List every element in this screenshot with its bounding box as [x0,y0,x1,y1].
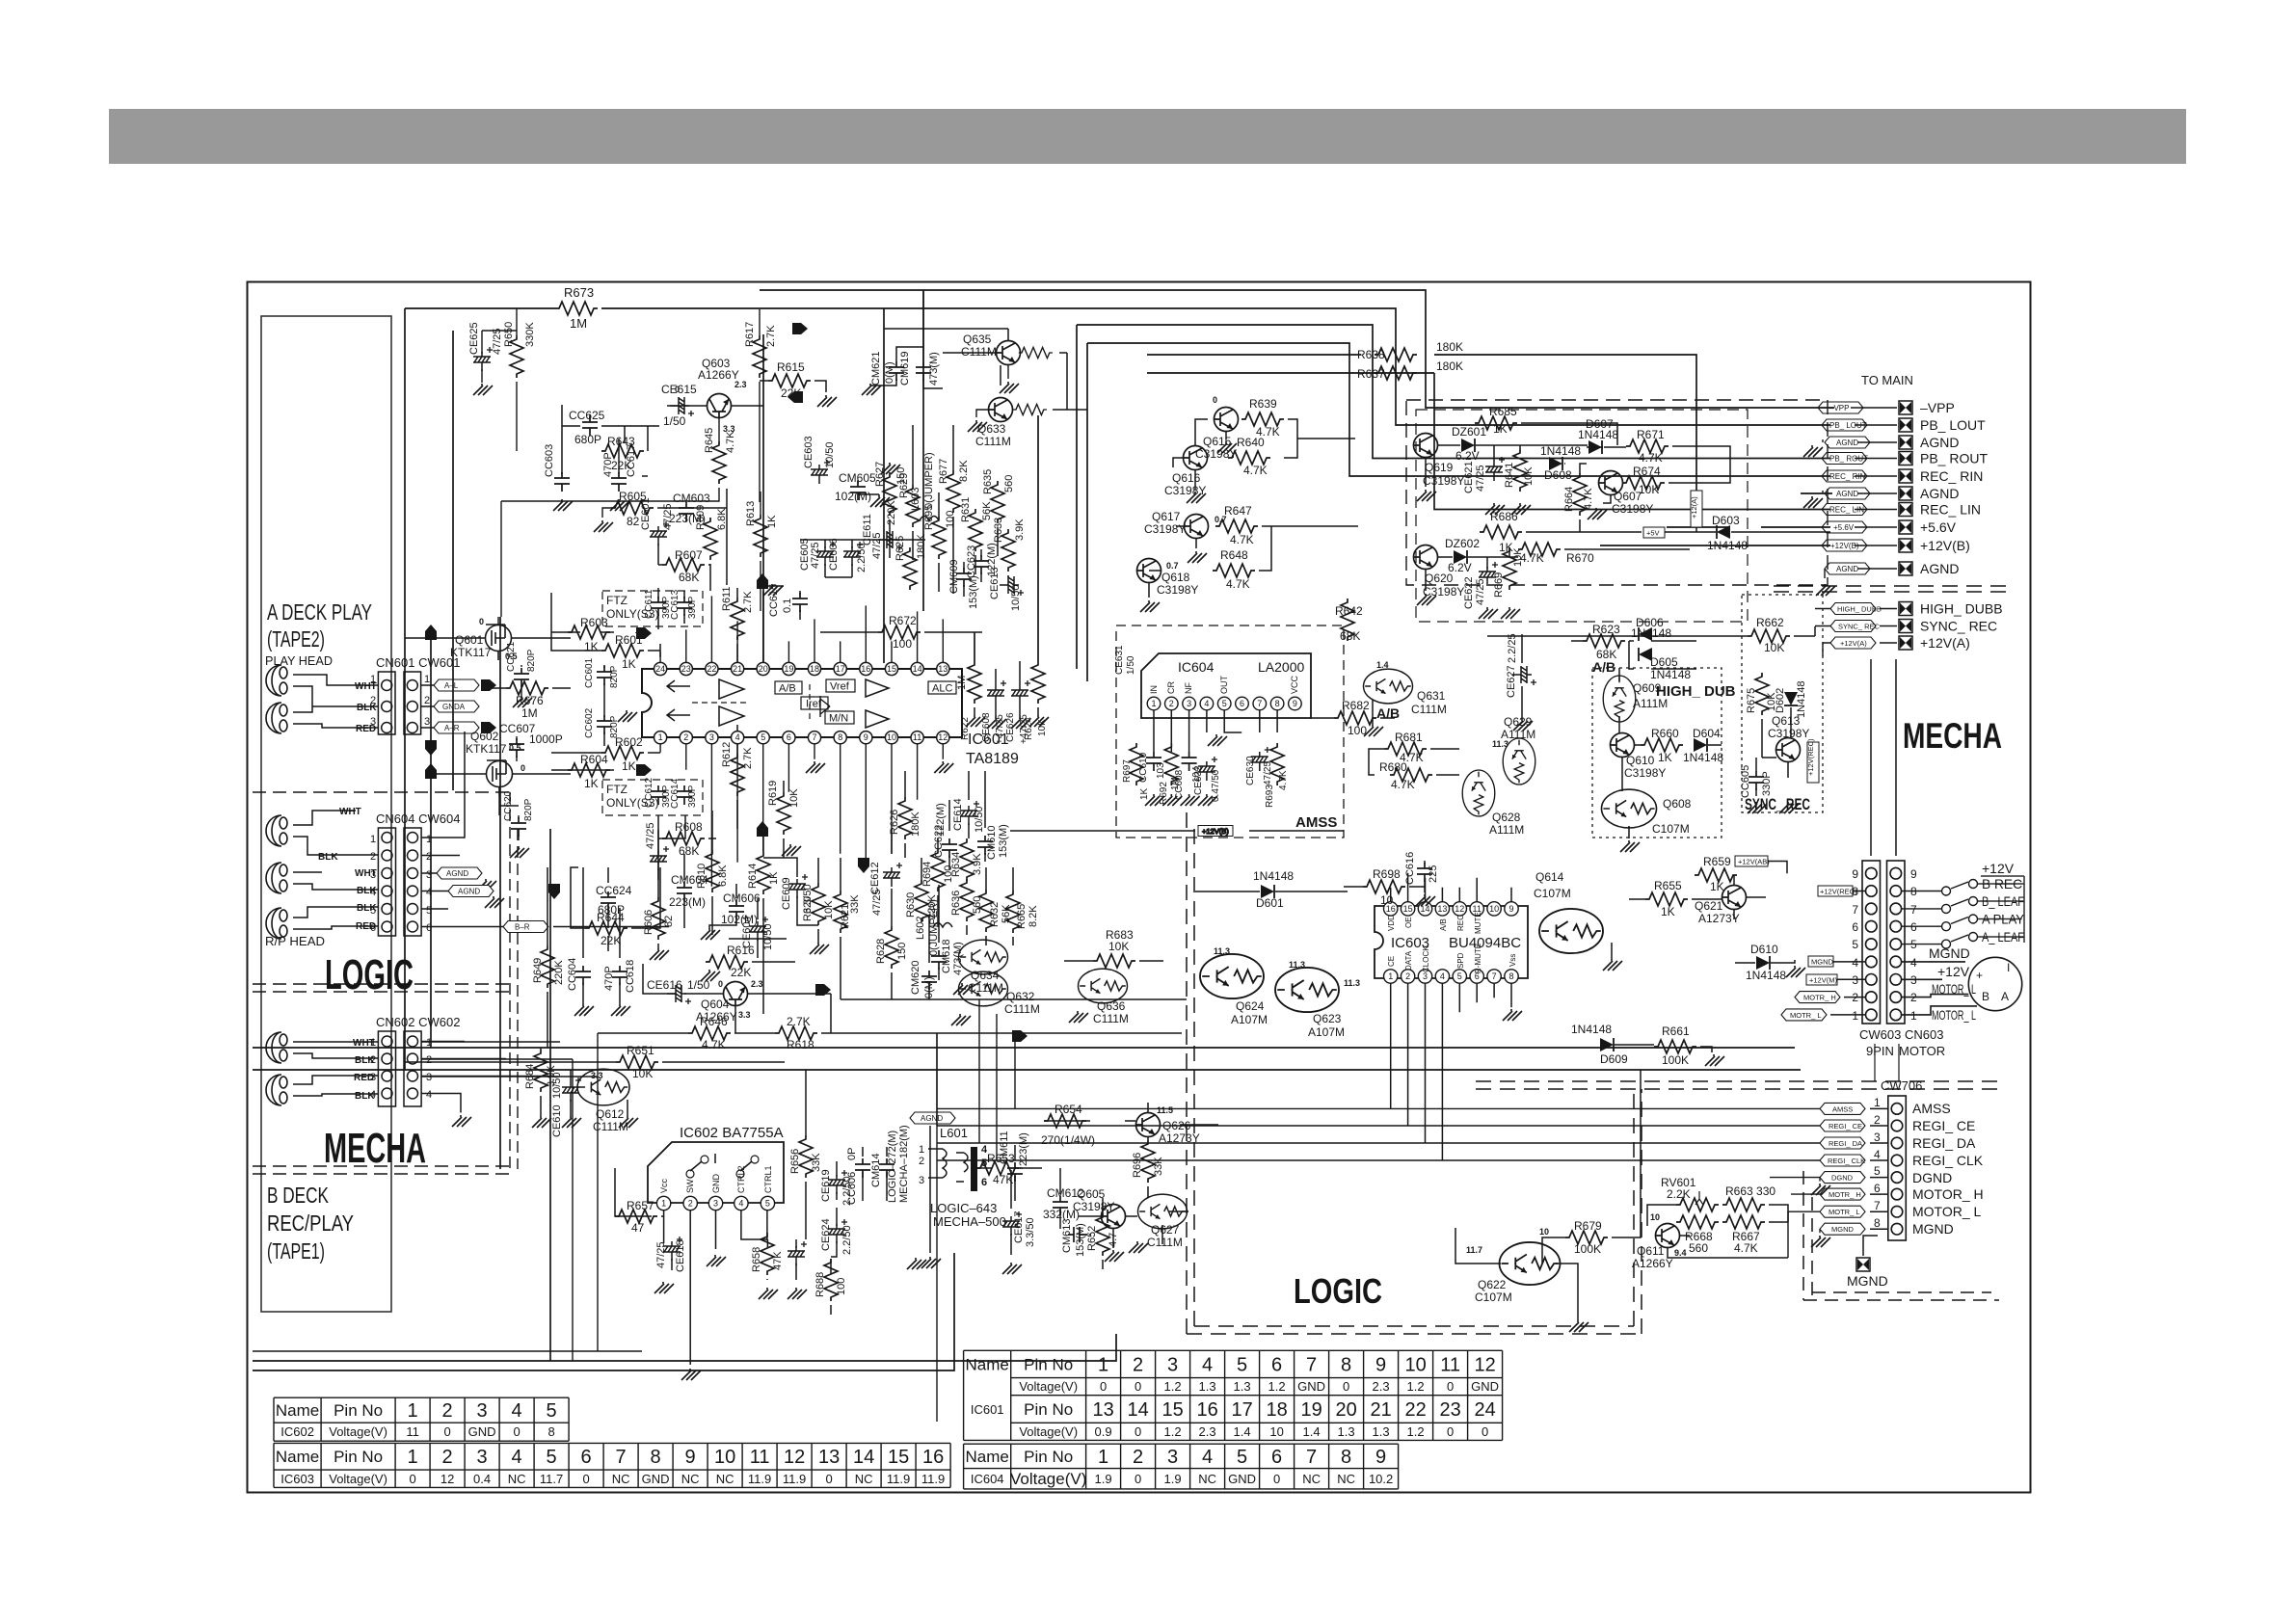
transistor Q628 A111M [1462,770,1495,816]
transistor Q610 C3198Y [1611,733,1635,758]
svg-text:FTZ: FTZ [606,783,627,796]
svg-text:TO MAIN: TO MAIN [1861,373,1913,387]
svg-text:R629: R629 [898,473,910,498]
svg-text:B DECK: B DECK [267,1183,329,1208]
svg-text:GND: GND [468,1424,496,1439]
svg-text:A1266Y: A1266Y [1632,1257,1673,1270]
svg-text:LOGIC–272(M): LOGIC–272(M) [887,1131,898,1203]
wire bottom bus 1 [253,1334,1116,1361]
svg-text:R632: R632 [989,902,1001,927]
dashed separator LOGIC bottom (double) [253,984,511,992]
svg-text:IC602 BA7755A: IC602 BA7755A [680,1125,784,1141]
svg-text:100: 100 [945,511,956,528]
svg-text:+5.6V: +5.6V [1920,519,1957,535]
resistor R664 4.7K [1573,473,1587,516]
transistor Q620 [1414,545,1438,570]
svg-text:AGND: AGND [1920,561,1959,576]
svg-text:4: 4 [1202,1447,1213,1468]
wires from tags leftwards [1823,408,1897,578]
svg-text:11.3: 11.3 [1492,739,1508,749]
ground Q616 [1187,492,1206,503]
svg-text:2: 2 [370,851,376,863]
svg-text:4: 4 [370,1089,376,1101]
svg-text:102(M): 102(M) [835,490,871,503]
svg-text:82: 82 [663,916,675,927]
svg-text:1: 1 [1151,699,1156,708]
svg-text:1K: 1K [584,640,599,653]
capacitor CC625 680P [582,416,598,436]
svg-text:R665: R665 [1016,904,1028,929]
svg-text:R682: R682 [1342,699,1370,712]
resistor R661 100K [1654,1040,1696,1053]
svg-text:10K: 10K [788,788,800,808]
boxed label Vref [826,679,855,692]
dashed: upper right zone under TO MAIN (double) [1774,586,2013,592]
svg-text:4.7K: 4.7K [1583,488,1594,510]
svg-text:R615: R615 [777,360,805,374]
svg-text:820P: 820P [523,798,534,821]
svg-text:DGND: DGND [1912,1170,1952,1185]
svg-text:IN: IN [1149,685,1159,694]
svg-text:5: 5 [1874,1164,1881,1178]
pad PB_ROUT [1899,452,1912,466]
svg-text:CE601: CE601 [640,497,652,530]
resistor R621 33K [834,891,847,933]
resistor R630 220K [915,880,928,922]
svg-text:1: 1 [408,1400,418,1422]
svg-text:Name: Name [966,1355,1009,1373]
svg-text:R648: R648 [1220,548,1248,562]
capacitor CC612 390P [651,785,666,805]
svg-text:MECHA: MECHA [324,1125,426,1172]
svg-text:BU4094BC: BU4094BC [1449,935,1521,951]
svg-text:0: 0 [1213,395,1217,405]
svg-text:2: 2 [426,1054,432,1066]
pin wires down [1154,710,1295,752]
svg-text:1/50: 1/50 [1126,655,1136,675]
svg-text:2.3: 2.3 [751,979,763,989]
IC603 body [1375,906,1528,978]
svg-text:3: 3 [1187,699,1191,708]
svg-text:3.3/50: 3.3/50 [1025,1217,1036,1247]
svg-text:R685: R685 [1489,405,1517,418]
svg-text:0.9: 0.9 [1095,1424,1112,1439]
svg-text:1/50: 1/50 [687,978,710,992]
svg-text:Q608: Q608 [1663,797,1692,811]
svg-text:C111M: C111M [1147,1236,1183,1249]
svg-text:C111M: C111M [1004,1002,1040,1016]
resistor R657 47 [615,1210,657,1223]
connector CW603 [1862,861,1881,1024]
svg-text:3: 3 [709,732,714,742]
wire +12V(B) tag feed [1010,830,1344,832]
svg-text:MGND: MGND [1929,945,1970,961]
+12V(A) row [1899,636,1912,650]
svg-text:4: 4 [512,1400,522,1422]
svg-text:9.4: 9.4 [1674,1248,1687,1258]
capacitor CM609 153(M) [956,568,972,587]
svg-text:1.2: 1.2 [1268,1379,1286,1394]
svg-text:4.7K: 4.7K [1639,451,1663,465]
capacitor CE630 47/25 [1251,747,1270,771]
capacitor CE601 47/25 [650,521,669,545]
svg-text:CC617: CC617 [626,444,637,477]
svg-text:100: 100 [836,1278,847,1295]
svg-text:4: 4 [1910,956,1917,970]
svg-text:R650: R650 [503,322,515,347]
svg-text:MOTR_ L: MOTR_ L [1829,1208,1860,1216]
svg-text:3.9K: 3.9K [972,853,983,875]
svg-text:6: 6 [1271,1354,1282,1375]
diode D606 1N4148 [1639,627,1652,641]
svg-text:Q634: Q634 [971,969,1000,982]
svg-text:R-MUTE: R-MUTE [1474,944,1482,973]
svg-text:1K: 1K [1710,880,1724,893]
svg-text:10/50: 10/50 [824,441,836,468]
svg-text:19: 19 [784,664,793,674]
svg-text:1: 1 [1388,971,1393,981]
resistor R628 150 [885,926,898,969]
svg-text:CM614: CM614 [870,1154,882,1187]
svg-text:4.7K: 4.7K [702,1038,726,1051]
svg-text:Name: Name [276,1448,319,1466]
svg-text:7: 7 [1257,699,1262,708]
pin circles bottom row 1..12 [654,732,949,744]
svg-text:122(M): 122(M) [935,803,947,837]
svg-text:R640: R640 [1237,436,1265,449]
svg-text:CC604: CC604 [567,958,578,991]
wedge pad mid [815,984,831,996]
svg-text:NC: NC [855,1472,873,1486]
svg-text:0.7: 0.7 [1166,561,1179,571]
svg-text:1: 1 [408,1447,418,1468]
svg-text:CN602 CW602: CN602 CW602 [376,1015,460,1029]
svg-text:11.7: 11.7 [1466,1245,1482,1255]
svg-text:R651: R651 [627,1044,654,1057]
svg-text:10/50: 10/50 [974,806,985,833]
svg-text:MECHA–182(M): MECHA–182(M) [898,1125,910,1203]
boxed label Iref [801,697,828,709]
wedge pad left near Q633 row [788,391,803,403]
svg-text:2: 2 [1405,971,1410,981]
svg-text:SYNC_ REC: SYNC_ REC [1838,623,1881,631]
wires q601 [405,617,571,840]
resistor R623 68K [1583,634,1625,648]
inductor L602 0(JUMPER) [933,923,952,928]
transistor Q627 C111M [1138,1194,1188,1229]
svg-text:100K: 100K [1662,1053,1689,1067]
svg-text:R631: R631 [960,497,972,522]
svg-text:223(M): 223(M) [669,895,706,909]
svg-text:2: 2 [370,695,376,706]
svg-text:270(1/4W): 270(1/4W) [1041,1133,1095,1147]
resistor R672 100 [878,625,921,639]
svg-text:4: 4 [1202,1354,1213,1375]
capacitor CE609 3.3/50 [788,874,808,898]
transistor Q601 KTK117 [486,625,512,660]
svg-text:CE619: CE619 [820,1169,832,1202]
wire verticals below IC603 [937,999,1015,1160]
svg-text:3: 3 [477,1447,488,1468]
net tag +12V(B) [1822,540,1867,551]
svg-text:AMSS: AMSS [1295,814,1337,831]
svg-text:R693: R693 [1265,785,1275,808]
svg-text:4.7K: 4.7K [1520,551,1544,565]
connector CN601 [378,672,395,734]
svg-text:R620: R620 [802,896,814,921]
svg-text:Q621: Q621 [1695,899,1723,913]
svg-text:10: 10 [1489,904,1499,914]
svg-text:Iref: Iref [806,699,822,710]
svg-text:AGND: AGND [921,1114,943,1123]
svg-text:KTK117: KTK117 [450,646,492,659]
svg-text:47/25: 47/25 [645,822,656,849]
capacitor CC604 [575,966,591,985]
svg-text:DGND: DGND [1831,1174,1854,1183]
svg-text:47/25: 47/25 [1475,465,1486,492]
svg-text:CE632: CE632 [1193,765,1204,795]
svg-text:CE618: CE618 [675,1239,686,1272]
boxed tag +12V(REC) vertical [1807,742,1819,783]
wires IC603 bottom staircase [1391,983,1511,1160]
svg-text:C3198Y: C3198Y [1157,583,1198,597]
wire CW602 rows to right [421,1042,598,1077]
capacitor CC605 330P [1749,771,1764,790]
svg-text:NC: NC [612,1472,630,1486]
net tag AGND [1825,437,1870,448]
svg-text:1M: 1M [570,316,587,331]
svg-text:GNDA: GNDA [442,703,466,711]
grounds under [1145,794,1164,806]
svg-text:Voltage(V): Voltage(V) [329,1424,387,1439]
svg-text:3: 3 [477,1400,488,1422]
svg-text:9: 9 [1375,1354,1386,1375]
svg-text:R603: R603 [580,616,608,629]
svg-text:PB_ LOUT: PB_ LOUT [1920,417,1986,433]
capacitor CE624 2.2/50 [828,1219,847,1243]
svg-text:3: 3 [426,1072,432,1083]
resistor R679 100K [1565,1231,1608,1244]
svg-text:17: 17 [836,664,845,674]
resistor R632 56K [979,890,993,932]
svg-text:Q632: Q632 [1006,990,1035,1003]
svg-text:4.7K: 4.7K [1278,770,1289,790]
transistor Q603 [707,394,732,418]
svg-text:47K: 47K [993,1173,1013,1186]
svg-text:16: 16 [922,1447,944,1468]
svg-text:9: 9 [1375,1447,1386,1468]
svg-text:1.2: 1.2 [1407,1424,1425,1439]
svg-text:68K: 68K [679,571,699,584]
transistor Q624 A107M [1200,954,1264,998]
svg-text:CC606: CC606 [846,1172,858,1205]
capacitor CC606 0P [855,1158,870,1178]
svg-text:1N4148: 1N4148 [1571,1023,1612,1036]
svg-text:(TAPE2): (TAPE2) [267,626,325,652]
connector CN602 [378,1031,395,1106]
resistor R626 180K [898,797,912,839]
svg-text:+12(A): +12(A) [1690,496,1698,519]
svg-text:1K: 1K [768,871,780,885]
svg-text:1.4: 1.4 [1376,660,1389,670]
svg-text:+12V(REC): +12V(REC) [1820,888,1857,896]
svg-text:12: 12 [441,1472,454,1486]
svg-text:NC: NC [1337,1472,1355,1486]
svg-text:5: 5 [1852,938,1858,951]
svg-text:33K: 33K [849,894,861,914]
resistor R655 1K [1645,892,1688,906]
svg-text:4.7K: 4.7K [1734,1241,1758,1255]
svg-text:2.3: 2.3 [734,380,747,389]
svg-text:6: 6 [581,1447,592,1468]
transistor Q621 A1273Y [1722,886,1747,910]
svg-text:10K: 10K [1639,483,1659,496]
svg-text:3: 3 [713,1199,718,1209]
svg-text:0(JUMPER): 0(JUMPER) [923,452,935,509]
svg-text:1.9: 1.9 [1095,1472,1112,1486]
svg-text:Voltage(V): Voltage(V) [1010,1470,1086,1488]
svg-text:6.2V: 6.2V [1455,449,1480,463]
svg-text:10.2: 10.2 [1369,1472,1393,1486]
resistor R643 22K [601,444,644,458]
svg-text:2: 2 [370,1054,376,1066]
resistor R673 1M [555,302,598,315]
svg-text:11.9: 11.9 [748,1472,771,1486]
wire head to CN601 [293,675,378,728]
svg-text:9: 9 [864,732,868,742]
transistor Q622 C107M [1500,1242,1561,1285]
svg-text:CC602: CC602 [584,707,595,738]
svg-text:R608: R608 [675,820,703,834]
svg-text:2.3: 2.3 [1199,1424,1216,1439]
svg-text:MECHA–500: MECHA–500 [933,1214,1006,1229]
svg-text:16: 16 [861,664,870,674]
svg-text:5: 5 [547,1400,557,1422]
svg-text:NC: NC [1302,1472,1321,1486]
svg-text:12: 12 [1474,1354,1495,1375]
resistor R627 150 [883,473,896,516]
svg-text:8: 8 [838,732,842,742]
resistor R606 82 [652,897,665,940]
play head B1 [266,815,287,846]
svg-text:470P: 470P [602,452,614,477]
svg-text:KTK117: KTK117 [466,742,507,756]
svg-text:5: 5 [765,1199,770,1209]
svg-text:7: 7 [1852,903,1858,917]
svg-text:12: 12 [784,1447,805,1468]
svg-text:8: 8 [651,1447,661,1468]
svg-text:CE630: CE630 [1245,756,1256,785]
svg-text:1N4148: 1N4148 [1540,444,1581,458]
svg-text:Pin No: Pin No [334,1448,383,1466]
svg-text:8: 8 [1341,1447,1351,1468]
svg-text:R636: R636 [950,891,962,916]
resistor R686 1K [1480,525,1522,539]
svg-text:10K: 10K [1108,940,1129,953]
wire mid horizontal bus 2 [253,1069,1801,1071]
svg-text:11.9: 11.9 [783,1472,806,1486]
svg-text:2.2/50: 2.2/50 [856,543,868,572]
svg-text:Q624: Q624 [1236,999,1265,1013]
pad -VPP [1899,401,1912,414]
svg-text:C111M: C111M [975,435,1011,448]
svg-text:5: 5 [1457,971,1462,981]
pad REC_RIN [1899,469,1912,483]
svg-text:Q602: Q602 [470,730,499,743]
resistor R609 6.8K [704,518,717,560]
resistor R610 6.8K [706,850,719,892]
wire vertical x594 [572,1059,574,1361]
svg-text:C3198Y: C3198Y [1144,522,1186,536]
resistor R660 1K [1641,738,1683,752]
svg-text:0: 0 [718,979,723,989]
svg-text:R694: R694 [921,862,933,887]
svg-text:2.7K: 2.7K [742,747,754,769]
svg-text:CE626: CE626 [1005,712,1016,742]
svg-text:A107M: A107M [1231,1013,1268,1026]
svg-text:9: 9 [1293,699,1297,708]
resistor R650 330K [510,335,523,378]
svg-text:CE617: CE617 [1013,1211,1025,1243]
svg-text:10/50: 10/50 [762,923,774,950]
svg-text:R669: R669 [1493,572,1505,598]
svg-text:15: 15 [1161,1399,1183,1421]
wire top bus 3 to PB_ROUT [1077,325,1830,459]
svg-text:6: 6 [1852,920,1858,934]
svg-text:12: 12 [938,732,948,742]
svg-text:10K: 10K [1523,466,1535,486]
svg-text:R646: R646 [700,1015,728,1028]
switch A_LEAF [1902,933,1978,949]
svg-text:VCC: VCC [1290,675,1299,694]
svg-text:R619: R619 [767,781,779,806]
svg-text:1N4148: 1N4148 [1253,869,1294,883]
svg-text:17: 17 [1231,1399,1252,1421]
svg-text:680P: 680P [574,433,601,446]
svg-text:A/B: A/B [779,683,796,695]
op-amp B [667,706,744,726]
svg-text:Q601: Q601 [455,633,484,647]
svg-text:820P: 820P [526,649,537,672]
net tag B-R [503,921,548,933]
capacitor CM613 153(M) [1068,1227,1087,1242]
transistor Q613 C3198Y [1776,738,1801,762]
svg-text:A1266Y: A1266Y [698,368,739,382]
inductor L603 0(JUMPER) [920,517,939,521]
svg-text:D601: D601 [1256,896,1284,910]
svg-text:2: 2 [442,1400,453,1422]
svg-text:IC603: IC603 [280,1472,314,1486]
svg-text:REGI_ DA: REGI_ DA [1829,1139,1862,1148]
svg-text:CN604 CW604: CN604 CW604 [376,811,460,826]
svg-text:CE625: CE625 [468,322,480,355]
svg-text:1K: 1K [1661,905,1675,918]
net tags CW706 [1820,1103,1865,1235]
net tag AGND2 [448,886,494,897]
svg-text:REC: REC [1456,915,1465,931]
resistor R677 8.2K [947,470,960,513]
svg-text:0: 0 [1135,1472,1141,1486]
svg-text:4: 4 [512,1447,522,1468]
transistor Q607 [1599,471,1623,495]
svg-text:153(M): 153(M) [968,575,979,609]
svg-text:CW603 CN603: CW603 CN603 [1859,1027,1943,1042]
resistor R601 1K [601,644,644,657]
capacitor CE605 47/25 [816,542,836,566]
capacitor CC616 225 [1417,863,1432,882]
svg-text:HIGH_ DUBB: HIGH_ DUBB [1837,605,1882,614]
svg-text:0: 0 [1100,1379,1107,1394]
